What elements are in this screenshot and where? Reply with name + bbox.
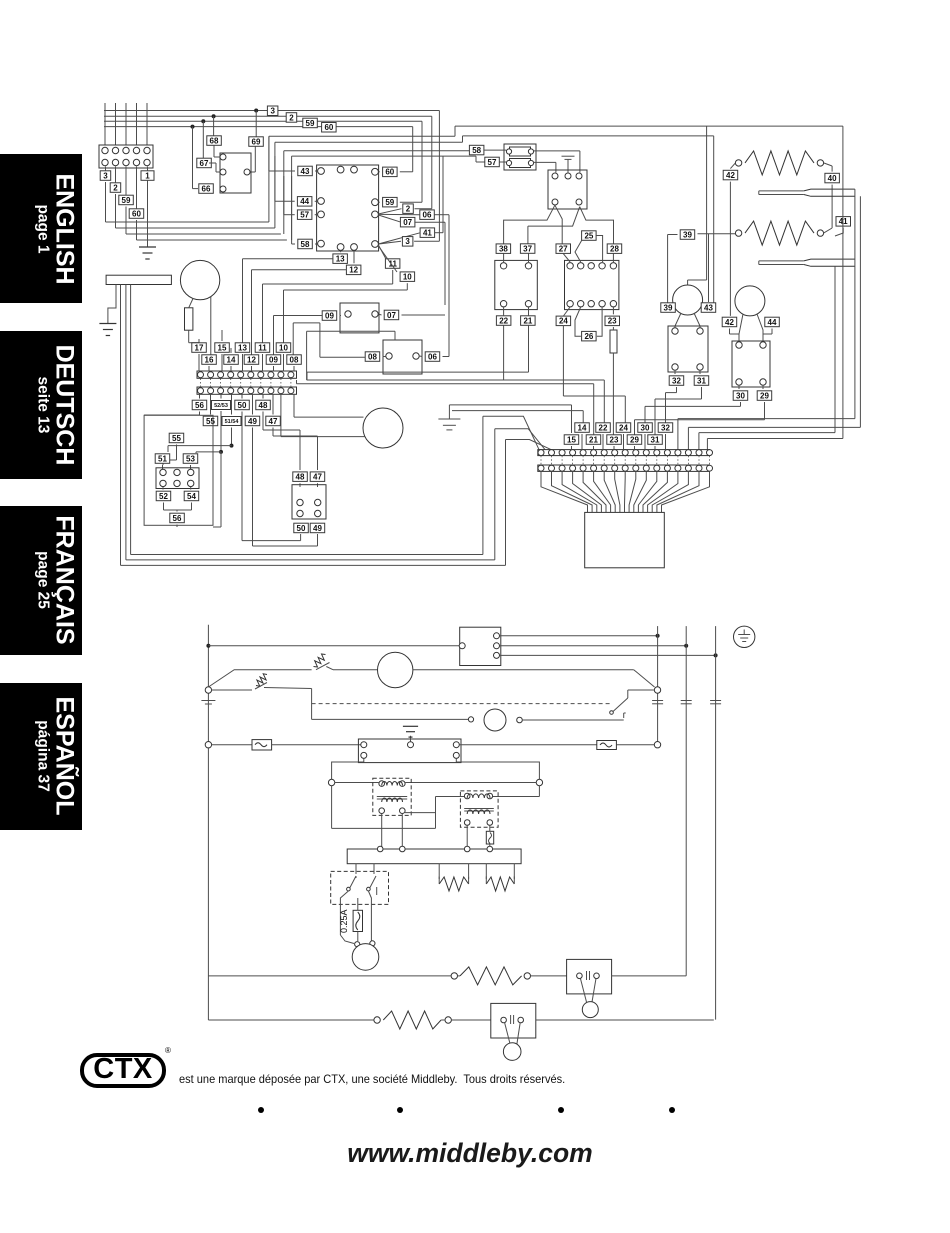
svg-text:57: 57 bbox=[488, 158, 497, 167]
node 60 A1 bbox=[378, 167, 412, 177]
svg-text:30: 30 bbox=[736, 391, 745, 400]
fuse FU3 bbox=[486, 831, 493, 844]
wire M4 upper bbox=[294, 394, 364, 417]
box 08 06 bbox=[383, 340, 422, 374]
wire rail R1 bbox=[657, 626, 659, 742]
svg-text:52/53: 52/53 bbox=[214, 403, 228, 409]
wire TR2 feed left bbox=[332, 786, 465, 829]
sidebar tab ENGLISH bbox=[0, 154, 82, 303]
sidebar tab ESPAÑOL bbox=[0, 683, 82, 830]
wire 69 to K6 bbox=[250, 147, 256, 173]
wire FU1 to B2 bbox=[272, 744, 361, 746]
wire 17 riser bbox=[198, 339, 200, 341]
svg-text:2: 2 bbox=[289, 113, 294, 122]
break marks rail 2 bbox=[681, 701, 692, 704]
svg-text:13: 13 bbox=[336, 255, 345, 264]
node 31m bbox=[655, 370, 709, 435]
node 3 A1 bbox=[378, 237, 439, 247]
terminal circle left bbox=[205, 687, 211, 693]
svg-text:56: 56 bbox=[195, 401, 204, 410]
svg-text:58: 58 bbox=[301, 240, 310, 249]
wire primary line bbox=[335, 782, 536, 784]
svg-text:55: 55 bbox=[206, 417, 215, 426]
wire bus 59 bbox=[104, 121, 422, 198]
wire 12 run bbox=[252, 270, 347, 355]
junction dots bus bbox=[191, 109, 259, 129]
motor M5 bbox=[378, 652, 413, 687]
svg-text:23: 23 bbox=[608, 317, 617, 326]
wire S2 down bbox=[311, 689, 313, 720]
wire label stubs bbox=[106, 167, 137, 209]
svg-text:2: 2 bbox=[406, 205, 411, 214]
svg-text:58: 58 bbox=[472, 146, 481, 155]
wire 51-54 run bbox=[168, 428, 234, 453]
svg-text:47: 47 bbox=[313, 473, 322, 482]
svg-text:23: 23 bbox=[610, 435, 619, 444]
node 39h bbox=[668, 230, 736, 303]
wire right loop C bbox=[688, 126, 707, 285]
wire F1 right bbox=[533, 151, 580, 173]
frame vertical left bbox=[121, 285, 131, 566]
wire left rail bbox=[207, 625, 209, 1020]
starter X2 bbox=[668, 326, 708, 372]
svg-text:0.25A: 0.25A bbox=[339, 909, 349, 933]
wire B2 to rail bbox=[459, 744, 597, 746]
control box B1 bbox=[459, 627, 501, 665]
wire M5 right bbox=[413, 670, 655, 687]
node 59 bus bbox=[303, 118, 318, 128]
terminal strip TS2 bbox=[538, 450, 713, 472]
wire 47 run bbox=[273, 428, 318, 471]
transformer TR1 bbox=[373, 778, 411, 815]
node 2 bbox=[110, 183, 121, 193]
wire DS1 right bbox=[612, 975, 687, 977]
wire terminal 1 to ground bbox=[147, 167, 149, 248]
svg-text:60: 60 bbox=[132, 209, 141, 218]
svg-text:15: 15 bbox=[218, 343, 227, 352]
node 47r bbox=[310, 472, 325, 487]
terminal block TB1 bbox=[99, 145, 153, 168]
resistor R3b bbox=[383, 1011, 441, 1029]
wire TR2 sec drops bbox=[467, 825, 490, 849]
svg-text:06: 06 bbox=[423, 211, 432, 220]
node 57 bbox=[297, 210, 317, 220]
switch S3 blade bbox=[610, 690, 655, 714]
footer url bbox=[0, 1138, 945, 1169]
node 48r bbox=[293, 472, 308, 487]
motor M6 bbox=[484, 709, 522, 731]
heater R40 bbox=[735, 151, 823, 175]
TS1 bottom labels bbox=[192, 394, 280, 426]
lamp L2 bbox=[582, 1002, 598, 1018]
wire connector fan bbox=[541, 471, 710, 512]
node 41h bbox=[824, 217, 851, 236]
svg-text:52: 52 bbox=[159, 492, 168, 501]
enclosure RL bbox=[144, 415, 213, 525]
switch box SW1 bbox=[331, 871, 389, 904]
resistor R2b bbox=[458, 967, 522, 985]
ground G5 bbox=[403, 726, 418, 741]
wire 67 to K6 bbox=[209, 163, 220, 172]
wire rail R2 bbox=[685, 626, 687, 976]
svg-text:32: 32 bbox=[661, 423, 670, 432]
node 3 bbox=[100, 171, 111, 181]
svg-text:68: 68 bbox=[210, 136, 219, 145]
svg-text:51/54: 51/54 bbox=[225, 419, 240, 425]
svg-text:16: 16 bbox=[205, 355, 214, 364]
wire 56 run bbox=[144, 412, 199, 416]
terminal T1 left bbox=[328, 779, 334, 785]
svg-text:17: 17 bbox=[195, 343, 204, 352]
wire H drops bbox=[439, 876, 514, 884]
svg-text:60: 60 bbox=[324, 123, 333, 132]
wire TB1 runs bbox=[106, 182, 287, 240]
node 38 bbox=[496, 244, 511, 262]
node 13 A1 bbox=[333, 250, 348, 263]
frame bottom bbox=[121, 555, 506, 566]
svg-text:43: 43 bbox=[301, 167, 310, 176]
wire bus 3 bbox=[104, 111, 439, 242]
svg-text:48: 48 bbox=[296, 473, 305, 482]
svg-text:39: 39 bbox=[683, 230, 692, 239]
motor M1 bbox=[180, 260, 219, 299]
svg-text:55: 55 bbox=[172, 434, 181, 443]
svg-text:37: 37 bbox=[523, 244, 532, 253]
wire rail R3 bbox=[715, 626, 717, 1019]
svg-text:09: 09 bbox=[325, 311, 334, 320]
wire FU2 right bbox=[616, 742, 660, 748]
wire TS2 stubs up bbox=[452, 380, 625, 435]
node 22 bbox=[496, 307, 511, 380]
node 28 bbox=[607, 244, 622, 262]
svg-text:51: 51 bbox=[158, 454, 167, 463]
starter X3 bbox=[732, 341, 770, 387]
terminal T1 right bbox=[536, 779, 542, 785]
node 42h bbox=[723, 163, 738, 316]
wire bus 2 bbox=[104, 116, 432, 204]
svg-text:21: 21 bbox=[523, 316, 532, 325]
sidebar tab FRANÇAIS bbox=[0, 506, 82, 656]
node 68 bbox=[207, 136, 222, 146]
wire 13 run bbox=[243, 259, 334, 343]
wire row3 bbox=[208, 1017, 380, 1023]
wire B1 out2 bbox=[500, 644, 689, 648]
node 37 bbox=[520, 244, 535, 262]
node 07b bbox=[378, 310, 445, 320]
svg-text:12: 12 bbox=[247, 355, 256, 364]
wire B2 right drop bbox=[456, 758, 539, 779]
node 69 bbox=[249, 137, 263, 147]
node 56b bbox=[170, 510, 185, 527]
node 2 A1 bbox=[378, 204, 431, 214]
wire frame top 4 bbox=[292, 156, 485, 162]
wire R3b right bbox=[441, 1017, 491, 1023]
node 10 A1 bbox=[284, 246, 415, 343]
node 29m bbox=[635, 385, 772, 435]
wire busbar ground bbox=[108, 285, 116, 324]
svg-text:09: 09 bbox=[269, 355, 278, 364]
wire K5 fans bbox=[504, 205, 614, 244]
wire dashed link bbox=[312, 703, 611, 705]
switch SW1 blades bbox=[347, 864, 377, 895]
wire frame top 3 bbox=[284, 149, 470, 152]
node 41 A1 bbox=[378, 156, 443, 244]
node 59 bbox=[119, 195, 134, 205]
terminal strip TS1 bbox=[197, 371, 297, 394]
svg-text:44: 44 bbox=[300, 197, 309, 206]
bus bar left bbox=[106, 275, 171, 284]
svg-text:27: 27 bbox=[559, 245, 568, 254]
node 30m bbox=[645, 385, 748, 423]
svg-text:2: 2 bbox=[113, 183, 118, 192]
node 52 bbox=[156, 487, 177, 510]
svg-text:60: 60 bbox=[385, 168, 394, 177]
svg-text:59: 59 bbox=[306, 119, 315, 128]
wire 52-53 run bbox=[196, 411, 223, 527]
svg-text:66: 66 bbox=[202, 184, 211, 193]
resistor R23 bbox=[610, 327, 617, 435]
node 60 bus bbox=[322, 123, 337, 133]
wire drops to K6 bbox=[193, 111, 257, 189]
node 55a bbox=[163, 433, 184, 465]
ground G2 bbox=[562, 156, 575, 172]
svg-text:08: 08 bbox=[368, 352, 377, 361]
svg-text:69: 69 bbox=[252, 137, 261, 146]
svg-text:3: 3 bbox=[405, 237, 410, 246]
node 32m bbox=[666, 370, 684, 423]
wire bus 60 bbox=[104, 127, 413, 172]
node 43m bbox=[701, 303, 716, 313]
node 25 bbox=[575, 231, 603, 262]
node 57 F1 bbox=[485, 157, 506, 167]
node 44 bbox=[297, 197, 317, 207]
node 06b bbox=[419, 352, 449, 362]
wire mid bus B bbox=[297, 372, 594, 384]
wire TC1 runs bbox=[855, 189, 861, 427]
svg-text:41: 41 bbox=[423, 229, 432, 238]
node 07 A1 bbox=[378, 215, 445, 305]
svg-text:49: 49 bbox=[248, 417, 257, 426]
contactor KM2 bbox=[565, 260, 619, 309]
node 43 bbox=[298, 166, 318, 176]
wire M2 fans bbox=[675, 313, 700, 331]
svg-text:42: 42 bbox=[726, 171, 735, 180]
node 59 A1 bbox=[378, 197, 422, 207]
lamp L1 bbox=[340, 935, 378, 970]
svg-text:3: 3 bbox=[103, 171, 108, 180]
node 53 bbox=[183, 454, 198, 469]
power board B2 bbox=[358, 739, 461, 763]
wire 58 left bbox=[292, 176, 295, 244]
footer trademark text bbox=[179, 1072, 565, 1086]
svg-text:38: 38 bbox=[499, 245, 508, 254]
wire right loop A bbox=[455, 126, 843, 438]
svg-text:44: 44 bbox=[768, 318, 777, 327]
terminal circle right bbox=[654, 687, 660, 693]
wire B1 out3 bbox=[500, 653, 718, 657]
wire TC2 runs bbox=[835, 259, 843, 433]
relay K6 bbox=[220, 153, 251, 193]
ground G1 bbox=[139, 247, 156, 259]
svg-text:32: 32 bbox=[672, 376, 681, 385]
node 3 bus bbox=[267, 106, 278, 116]
node 49r bbox=[310, 523, 325, 533]
node 51 bbox=[155, 454, 170, 469]
wire SW1 out bbox=[340, 891, 371, 935]
wire M4 lower bbox=[281, 394, 365, 436]
svg-text:50: 50 bbox=[297, 524, 306, 533]
connector CN1 bbox=[585, 512, 665, 567]
svg-text:11: 11 bbox=[258, 343, 267, 352]
wire 11 down bbox=[263, 270, 393, 343]
sidebar tab DEUTSCH bbox=[0, 331, 82, 480]
node 1 bbox=[141, 171, 154, 181]
label 025A bbox=[339, 909, 349, 933]
node 60 bbox=[129, 209, 144, 219]
wire B2 left drop bbox=[332, 758, 364, 779]
svg-text:49: 49 bbox=[313, 524, 322, 533]
wire R2b right bbox=[524, 973, 567, 979]
wire 49 run bbox=[253, 428, 318, 547]
wire door branch bbox=[208, 670, 311, 687]
svg-text:26: 26 bbox=[584, 332, 593, 341]
TS2 labels bbox=[564, 423, 673, 450]
resistor R1 bbox=[185, 299, 200, 343]
wire DS2 right bbox=[536, 1019, 716, 1022]
earth symbol E1 bbox=[734, 626, 755, 647]
fuse FU1 bbox=[252, 740, 272, 750]
break marks rail 1 bbox=[652, 701, 663, 704]
door switch DS1 bbox=[567, 959, 612, 1002]
fuse block F1 bbox=[504, 144, 536, 170]
node 50r bbox=[294, 523, 309, 533]
node 66 bbox=[199, 184, 214, 194]
svg-text:42: 42 bbox=[725, 318, 734, 327]
node 26 bbox=[575, 307, 602, 341]
svg-text:40: 40 bbox=[828, 174, 837, 183]
svg-text:25: 25 bbox=[584, 231, 593, 240]
wire fuse row bbox=[205, 742, 252, 748]
node 06 A1 bbox=[378, 210, 449, 357]
svg-text:31: 31 bbox=[651, 435, 660, 444]
wire frame top 2 bbox=[275, 136, 463, 142]
motor M3 bbox=[735, 286, 765, 316]
node 44m bbox=[763, 317, 779, 341]
node 40 bbox=[824, 163, 840, 228]
svg-text:12: 12 bbox=[349, 266, 358, 275]
svg-text:39: 39 bbox=[664, 303, 673, 312]
wire 68 to K6 bbox=[214, 146, 220, 158]
footer dots bbox=[258, 1107, 264, 1113]
svg-text:31: 31 bbox=[697, 376, 706, 385]
wire B1 out1 bbox=[500, 634, 660, 638]
node 54 bbox=[177, 487, 199, 510]
svg-text:53: 53 bbox=[186, 454, 195, 463]
wire TR2 feed right bbox=[493, 786, 540, 797]
node 42m bbox=[722, 317, 737, 327]
svg-text:1: 1 bbox=[145, 171, 150, 180]
break marks rail 3 bbox=[710, 701, 721, 704]
node 11 A1 bbox=[378, 245, 400, 268]
fuse F025 bbox=[353, 898, 362, 941]
svg-text:22: 22 bbox=[599, 423, 608, 432]
probe TC2 bbox=[759, 259, 855, 266]
svg-text:48: 48 bbox=[259, 401, 268, 410]
svg-text:06: 06 bbox=[428, 352, 437, 361]
ground G3 bbox=[99, 324, 116, 336]
fuse FU2 bbox=[597, 741, 617, 750]
svg-text:13: 13 bbox=[238, 343, 247, 352]
node 58 bbox=[298, 239, 318, 249]
box 09 07 bbox=[340, 303, 379, 333]
wire 44 left bbox=[275, 156, 295, 201]
control module A1 bbox=[317, 165, 379, 251]
wire L1 feed bbox=[208, 645, 462, 647]
frame vertical right bbox=[483, 416, 506, 565]
node 27 bbox=[556, 244, 571, 262]
wire row2 bbox=[208, 973, 457, 979]
wire right loop B bbox=[463, 136, 714, 303]
relay K47 bbox=[292, 485, 326, 519]
node 67 bbox=[197, 158, 212, 168]
door switch DS2 bbox=[491, 1003, 536, 1046]
ground G4 bbox=[438, 405, 460, 430]
node 58 F1 bbox=[469, 145, 506, 155]
relay RL1 bbox=[156, 468, 199, 489]
svg-text:24: 24 bbox=[619, 423, 628, 432]
motor M2 bbox=[673, 285, 703, 315]
wire 15 14 stubs bbox=[222, 330, 231, 353]
wire module frame risers bbox=[269, 136, 292, 240]
node 24 bbox=[556, 307, 571, 396]
bus board B3 bbox=[347, 846, 521, 864]
node 09b bbox=[274, 311, 342, 355]
wire 50 run bbox=[242, 412, 301, 541]
svg-text:28: 28 bbox=[610, 245, 619, 254]
wire M3 fans bbox=[730, 314, 764, 345]
svg-text:14: 14 bbox=[227, 355, 236, 364]
lamp L3 bbox=[503, 1043, 521, 1061]
CTX logo bbox=[80, 1053, 166, 1088]
battery marks bbox=[201, 701, 215, 705]
wire 48 run bbox=[263, 412, 300, 471]
svg-text:22: 22 bbox=[499, 316, 508, 325]
svg-text:67: 67 bbox=[200, 159, 209, 168]
svg-text:29: 29 bbox=[760, 391, 769, 400]
contactor KM1 bbox=[495, 260, 538, 309]
relay K5 bbox=[548, 170, 587, 209]
probe TC1 bbox=[759, 189, 855, 196]
wire 57 left bbox=[284, 176, 295, 215]
wire to M5 bbox=[333, 669, 378, 671]
svg-text:08: 08 bbox=[290, 355, 299, 364]
svg-text:10: 10 bbox=[403, 273, 412, 282]
heater R41 bbox=[735, 221, 823, 245]
wire y719 left bbox=[312, 717, 474, 722]
transformer TR2 bbox=[460, 791, 498, 827]
wire y720 right bbox=[522, 713, 625, 720]
svg-text:07: 07 bbox=[387, 311, 396, 320]
node 21 bbox=[521, 307, 536, 372]
svg-text:50: 50 bbox=[238, 401, 247, 410]
svg-text:3: 3 bbox=[270, 107, 275, 116]
wire mid bus A bbox=[307, 331, 605, 380]
node 23c bbox=[605, 307, 620, 326]
switch S1 bbox=[314, 654, 334, 670]
wire frame top 1 bbox=[269, 126, 455, 136]
node 12 A1 bbox=[346, 250, 361, 274]
frame diagonals bbox=[483, 416, 551, 449]
